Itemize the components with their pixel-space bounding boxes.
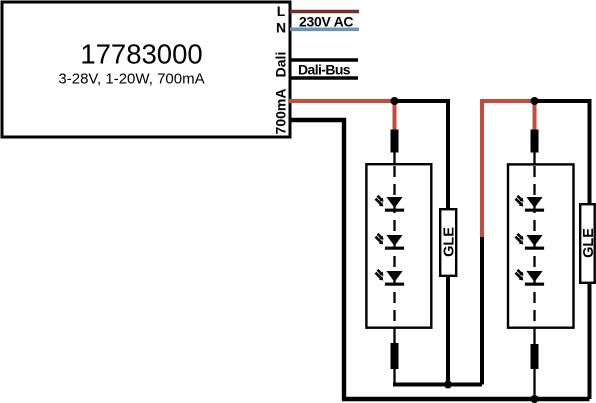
wire bar to series link xyxy=(393,369,395,385)
LED D2 xyxy=(375,233,405,250)
GLE2 xyxy=(580,204,595,283)
svg-text:230V AC: 230V AC xyxy=(299,14,353,30)
svg-text:GLE: GLE xyxy=(441,227,457,257)
junction node C xyxy=(531,97,539,105)
svg-text:17783000: 17783000 xyxy=(80,39,202,70)
wire riser red part xyxy=(482,101,535,237)
LED D6 xyxy=(515,269,545,286)
terminal bar module 2 bottom xyxy=(531,344,539,369)
LED module 2 box xyxy=(508,164,574,327)
svg-text:700mA: 700mA xyxy=(273,89,289,135)
LED D1 xyxy=(375,195,405,212)
wire node A to GLE1 top xyxy=(395,101,449,210)
LED string dashed line module 2 xyxy=(533,166,535,327)
svg-text:L: L xyxy=(277,3,286,19)
wire series link (module1/GLE1 bottom to riser) xyxy=(393,383,482,387)
wire module 2 box to bottom bar xyxy=(533,328,535,345)
LED D4 xyxy=(515,195,545,212)
wire Dali B xyxy=(290,76,358,80)
svg-text:Dali: Dali xyxy=(273,52,289,78)
svg-text:3-28V, 1-20W, 700mA: 3-28V, 1-20W, 700mA xyxy=(58,71,204,88)
junction node A xyxy=(391,97,399,105)
junction node B xyxy=(444,381,452,389)
wire bottom return xyxy=(342,397,590,401)
wire red drop LED module 2 xyxy=(533,101,537,131)
wire module 1 box to bottom bar xyxy=(393,328,395,344)
svg-text:GLE: GLE xyxy=(581,228,596,258)
driver module U1 (17783000) xyxy=(2,2,290,137)
LED module 1 box xyxy=(366,164,431,328)
wire L (line to mains) xyxy=(290,10,359,14)
LED string dashed line module 1 xyxy=(393,166,395,327)
wire node C to GLE2 top xyxy=(535,101,590,205)
terminal bar module 1 top xyxy=(391,130,399,153)
wire GLE1 bottom to node B xyxy=(446,274,450,385)
GLE1 xyxy=(440,209,456,276)
svg-text:N: N xyxy=(276,20,286,36)
svg-text:Dali-Bus: Dali-Bus xyxy=(298,62,351,78)
wire bar to node D xyxy=(533,369,535,399)
terminal bar module 1 bottom xyxy=(391,343,399,369)
junction node D xyxy=(531,395,539,403)
wire red drop LED module 1 xyxy=(393,101,397,132)
terminal bar module 2 top xyxy=(531,130,539,153)
wire GLE2 bottom to return xyxy=(588,282,592,399)
wire N (neutral) xyxy=(290,27,359,31)
LED D5 xyxy=(515,233,545,250)
LED D3 xyxy=(375,269,405,286)
wire 700mA minus (black return) xyxy=(290,120,344,399)
wire riser black part xyxy=(480,235,484,385)
wire bar to module 2 xyxy=(533,152,535,166)
wire Dali A xyxy=(290,58,358,62)
wire bar to module 1 xyxy=(393,152,395,166)
wire 700mA plus (red) to node A xyxy=(289,99,395,103)
